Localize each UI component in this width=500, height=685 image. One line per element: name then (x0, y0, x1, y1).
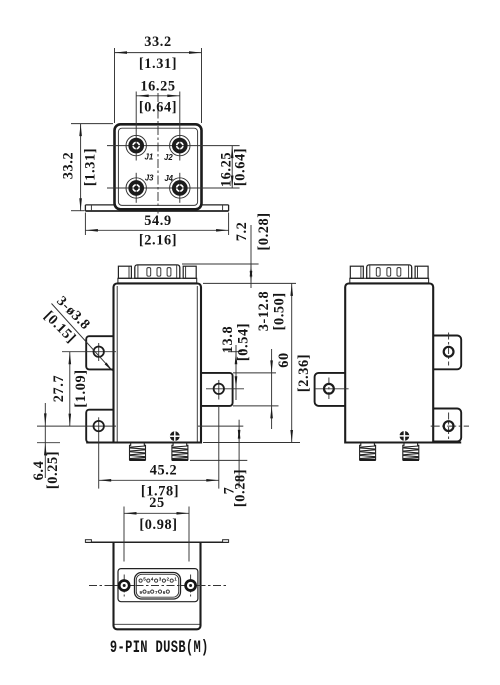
jack screw centerline left (123, 575, 125, 597)
svg-text:8: 8 (147, 590, 150, 595)
centerline through plate (114, 585, 135, 587)
dimension 45.2 [1.78] (hole columns spacing) (99, 463, 219, 500)
dimension 25 [0.98] (jack screw spacing) (124, 495, 189, 562)
connector J4 (SMA, top) (170, 178, 190, 198)
hole crosshair S2 (left tab) (315, 378, 349, 401)
connector J2 (SMA, top) (170, 135, 190, 155)
jack screw centerline right (190, 575, 192, 597)
connector plate (bottom view) (118, 569, 198, 602)
dimension 6.4 [0.25] (hole to base) (31, 403, 61, 489)
svg-text:[0.64]: [0.64] (139, 99, 177, 115)
svg-text:[0.28]: [0.28] (233, 469, 249, 507)
svg-text:54.9: 54.9 (144, 213, 171, 229)
mounting tab right (front) (201, 373, 233, 406)
svg-text:[0.25]: [0.25] (45, 451, 61, 489)
dimension 54.9 [2.16] (flange width) (85, 213, 228, 249)
svg-text:J3: J3 (145, 174, 154, 183)
dimension 27.7 [1.09] (left hole spacing) (51, 352, 89, 426)
svg-text:[0.50]: [0.50] (272, 292, 288, 330)
svg-text:[2.16]: [2.16] (139, 233, 177, 249)
centerline column J2/J4 (179, 131, 181, 203)
svg-text:9-PIN DUSB(M): 9-PIN DUSB(M) (110, 639, 209, 658)
svg-text:25: 25 (149, 495, 165, 511)
dimension 7 [0.28] (base to SMA tip) (190, 420, 249, 507)
svg-text:16.25: 16.25 (140, 78, 175, 94)
svg-text:13.8: 13.8 (220, 326, 236, 353)
mounting tab left (side) (315, 373, 346, 406)
centerline row J1-J2 (107, 145, 240, 147)
body square (top view) (115, 124, 202, 209)
hole crosshair S1 (vertical only) (448, 333, 450, 366)
cover screw (front) (170, 431, 180, 441)
body (front view) (114, 284, 202, 443)
dimension 7.2 [0.28] (D-sub protrusion) (182, 212, 272, 288)
svg-text:60: 60 (276, 352, 292, 368)
jack screw left (bottom view) (119, 581, 129, 591)
svg-text:7.2: 7.2 (234, 222, 250, 242)
SMA connector bottom-right (front) (172, 443, 188, 460)
svg-text:4: 4 (151, 577, 154, 582)
mounting tab lower-left (front) (86, 410, 113, 443)
leader 3-dia3.8 [0.15] (41, 293, 114, 372)
svg-text:9: 9 (140, 590, 143, 595)
svg-text:[0.64]: [0.64] (233, 148, 249, 186)
svg-text:45.2: 45.2 (150, 463, 177, 479)
body (side view) (345, 284, 433, 443)
dimension 16.25 [0.64] (top connector spacing) (136, 78, 180, 131)
flange edge (bottom view) (85, 540, 228, 543)
svg-text:33.2: 33.2 (61, 152, 77, 179)
svg-text:J1: J1 (145, 153, 154, 162)
hole crosshair S3 (431, 413, 469, 440)
mounting hole S2 (324, 384, 334, 394)
mounting hole H2 (94, 421, 104, 431)
svg-text:3: 3 (159, 577, 162, 582)
svg-text:2: 2 (167, 577, 170, 582)
connector J3 (SMA, top) (126, 178, 146, 198)
svg-text:[1.09]: [1.09] (73, 369, 89, 407)
svg-text:J2: J2 (164, 153, 173, 162)
body bottom edge (front) (86, 441, 201, 443)
D-sub pins row 2 (pins 6-9) (140, 590, 170, 595)
svg-text:[0.54]: [0.54] (236, 323, 252, 361)
svg-text:J4: J4 (164, 174, 173, 183)
svg-text:7: 7 (155, 590, 158, 595)
D-sub pins row 1 (pins 1-5) (139, 577, 177, 583)
mounting hole S3 (444, 421, 454, 431)
SMA connector bottom-right (side) (403, 443, 419, 460)
mounting tab lower-right (side) (433, 409, 461, 442)
svg-text:[2.36]: [2.36] (296, 354, 312, 392)
svg-text:[1.31]: [1.31] (139, 56, 177, 72)
dimension 16.25 [0.64] (right row spacing) (219, 146, 249, 188)
mounting hole H1 (3-dia3.8) (94, 347, 104, 357)
flange (top view mounting plate) (85, 205, 228, 211)
dimension 33.2 [1.31] (top width) (115, 34, 202, 123)
svg-text:33.2: 33.2 (144, 34, 171, 50)
SMA connector bottom-left (side) (359, 443, 375, 460)
svg-text:[0.98]: [0.98] (139, 517, 177, 533)
body bottom edge (side) (345, 441, 461, 443)
svg-text:6: 6 (163, 590, 166, 595)
dimension 3-12.8 [0.50] (tab height) (233, 291, 288, 429)
D-sub connector profile (side view) (350, 265, 429, 283)
mounting tab upper-left (front) (86, 336, 113, 369)
centerline vertical (top view) (157, 93, 159, 214)
svg-text:1: 1 (174, 577, 177, 582)
connector J1 (SMA, top) (126, 135, 146, 155)
mounting hole S1 (444, 347, 454, 357)
cover screw (side) (400, 431, 410, 441)
svg-text:[0.28]: [0.28] (256, 212, 272, 250)
svg-text:5: 5 (143, 577, 146, 582)
svg-text:[1.31]: [1.31] (83, 148, 99, 186)
svg-text:27.7: 27.7 (51, 375, 67, 402)
centerline column J1/J3 (135, 131, 137, 203)
dimension 33.2 [1.31] (left height) (61, 124, 114, 211)
D-sub connector profile (front view, on top of body) (118, 265, 197, 283)
hole crosshair H1 (62, 343, 116, 361)
hole crosshair H2 (37, 417, 116, 488)
D-shell (bottom view) (135, 573, 181, 600)
mounting hole H3 (214, 384, 224, 394)
svg-text:3-12.8: 3-12.8 (256, 291, 272, 332)
dimension 13.8 [0.54] (hole rows offset) (220, 323, 252, 400)
body (bottom view) (114, 542, 201, 629)
hole crosshair H3 (206, 380, 244, 489)
connector centerline (bottom view) (89, 585, 228, 587)
centerline row J3-J4 (107, 187, 240, 189)
SMA connector bottom-left (front) (129, 443, 145, 460)
mounting tab upper-right (side) (433, 336, 461, 370)
dimension 60 [2.36] (body height) (203, 283, 312, 442)
jack screw right (bottom view) (186, 581, 196, 591)
